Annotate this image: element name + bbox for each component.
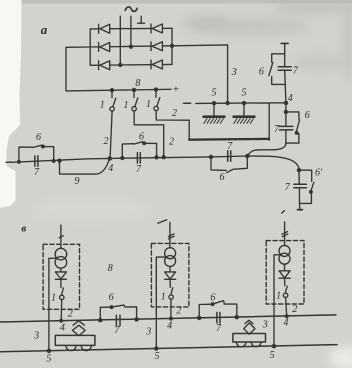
node left group left	[18, 160, 21, 163]
node main fork	[246, 154, 249, 157]
switch 6 group2 loop	[122, 143, 156, 158]
disconnector 1a circle	[110, 107, 114, 111]
trolley1 body	[55, 335, 95, 345]
svg-text:2: 2	[176, 305, 181, 316]
unit1 wire diode-disconnector	[60, 279, 62, 287]
trolley2 diamond	[244, 323, 255, 334]
label minus	[184, 102, 191, 104]
trolley1 pantograph	[73, 321, 84, 325]
node chain1 lower branch	[284, 110, 287, 113]
switch 6 chain2 contact dot	[310, 191, 313, 194]
node phase2-row2	[129, 45, 132, 48]
switch 6 chain1-lower contact dot	[295, 132, 298, 135]
svg-text:в: в	[21, 223, 26, 235]
node tap1 on bus 8	[111, 89, 114, 92]
transformer T1	[55, 248, 67, 268]
switch 6 left loop	[19, 147, 54, 162]
wire bridge minus output 3	[172, 45, 228, 103]
svg-text:2: 2	[169, 136, 174, 147]
unit3 break mark	[282, 232, 288, 237]
wire link to chain1	[247, 143, 286, 156]
node left group right	[52, 160, 55, 163]
diode VD1	[55, 272, 66, 279]
bridge right bus wire	[171, 28, 173, 64]
svg-text:6: 6	[305, 110, 310, 121]
disconnector 1 unit1 blade	[62, 288, 64, 295]
svg-text:2: 2	[68, 309, 73, 320]
unit2 top flick	[158, 220, 167, 224]
svg-text:+: +	[172, 83, 179, 95]
node group2 left	[121, 157, 124, 160]
disconnector 1b circle	[132, 107, 136, 111]
unit3 top tick	[282, 211, 285, 214]
switch 6 group3 blade	[227, 169, 234, 173]
node tap2 on bus 8	[133, 88, 136, 91]
switch 6 groupB blade	[213, 301, 223, 304]
unit3 bypass wire to rail	[274, 255, 281, 346]
ground electrode 5 left hatching	[204, 119, 224, 124]
svg-text:1: 1	[276, 291, 281, 302]
trolley2 wheels	[236, 342, 261, 347]
capacitor 7 group3 plates	[228, 151, 231, 161]
node groupB left	[198, 316, 201, 319]
svg-text:2: 2	[172, 108, 177, 119]
svg-text:1: 1	[161, 292, 166, 303]
unit2 top wire	[169, 222, 171, 248]
svg-text:6': 6'	[315, 168, 323, 179]
node right bus row2	[171, 44, 174, 47]
phase input wire 2	[130, 16, 132, 47]
node ground2	[243, 102, 246, 105]
node unit2 drop on bus	[162, 156, 165, 159]
svg-text:5: 5	[155, 351, 160, 362]
node unit2 contact wire	[170, 317, 173, 320]
svg-text:6: 6	[210, 292, 215, 303]
ground box bottom thick wire	[189, 138, 269, 141]
node groupA right	[135, 318, 138, 321]
main bus wire	[6, 156, 247, 162]
svg-text:9: 9	[75, 176, 80, 187]
transformer T2	[165, 248, 176, 267]
ground electrode 5 right bar	[234, 115, 255, 118]
node unit2 rail	[155, 347, 158, 350]
disconnector 1c lower wire	[156, 111, 189, 140]
switch 6 chain1-top blade	[269, 63, 273, 76]
diode D1 row1 left	[99, 24, 110, 33]
unit3 dashed box	[266, 241, 304, 304]
node unit1 rail	[47, 349, 50, 352]
capacitor 7 group2 plates	[137, 153, 140, 163]
disconnector 1c feed	[155, 90, 157, 98]
node 9-loop left	[58, 159, 61, 162]
chain2 bottom terminal	[298, 209, 303, 211]
disconnector 1a blade	[113, 98, 116, 106]
switch 6 groupA blade	[112, 305, 124, 307]
switch 6 left contact dot	[42, 145, 45, 148]
unit1 top wire	[60, 225, 62, 248]
switch 6 group3 loop below bus	[211, 156, 247, 170]
node group3 left	[210, 155, 213, 158]
disconnector 1c blade	[157, 98, 160, 106]
bridge row 2 wire	[90, 46, 172, 47]
capacitor 7 chain1-top plates	[278, 67, 291, 71]
disconnector 1 unit3 blade	[285, 286, 287, 293]
svg-text:3: 3	[33, 330, 39, 341]
trolley1 diamond	[72, 325, 85, 335]
wire bridge plus output to bus 8	[66, 47, 171, 91]
node groupA left	[99, 319, 102, 322]
unit2 dashed box	[151, 243, 189, 307]
unit3 wire diode-disconnector	[284, 278, 286, 286]
diode D2 row2 left	[99, 43, 110, 52]
disconnector 1a feed	[111, 90, 113, 98]
svg-text:3: 3	[145, 326, 151, 337]
svg-text:4: 4	[283, 317, 288, 328]
node chain2 top	[297, 169, 300, 172]
ground electrode 5 right hatching	[234, 119, 254, 124]
switch 6 chain1-lower blade	[296, 120, 299, 132]
phase input wire 3 with T end	[138, 16, 145, 23]
svg-text:3: 3	[231, 67, 237, 78]
transformer T3	[279, 245, 290, 264]
node unit3 contact wire	[285, 315, 288, 318]
bypass wire 9	[60, 159, 110, 174]
unit2 wire transformer-diode	[169, 267, 171, 272]
svg-text:4: 4	[167, 321, 172, 332]
svg-text:1: 1	[146, 99, 151, 110]
wire link to chain2	[247, 156, 299, 170]
svg-text:6: 6	[259, 66, 264, 77]
disconnector 1 unit3 circle	[283, 293, 287, 297]
unit1 top tick	[59, 236, 63, 238]
unit2 break mark	[168, 234, 174, 239]
switch 6 chain2 branch	[299, 170, 312, 203]
svg-text:6: 6	[36, 132, 41, 143]
switch 6 left blade	[33, 145, 42, 147]
svg-text:1: 1	[100, 100, 105, 111]
disconnector 1c circle	[154, 106, 158, 110]
trolley2 pantograph	[245, 320, 253, 323]
svg-text:8: 8	[108, 263, 113, 274]
bridge left bus wire	[89, 29, 91, 65]
svg-text:6: 6	[109, 292, 114, 303]
phase input wire 1	[119, 16, 121, 65]
svg-text:4: 4	[108, 163, 113, 174]
svg-text:4: 4	[60, 322, 65, 333]
capacitor 7 groupA plates	[116, 315, 120, 325]
svg-text:5: 5	[212, 88, 217, 99]
ground electrode 5 left bar	[204, 115, 225, 118]
unit2 bypass wire to rail	[156, 257, 166, 348]
trolley1 wheels	[66, 346, 92, 351]
capacitor 7 chain1-lower plates	[280, 126, 293, 129]
svg-text:a: a	[41, 22, 48, 37]
diode D3 row3 left	[99, 61, 110, 70]
switch 6 groupB contact dot	[211, 303, 214, 306]
minus bus wire	[196, 103, 286, 140]
switch 6 groupB loop	[199, 301, 237, 318]
unit1 dashed box	[43, 244, 79, 309]
svg-text:3: 3	[262, 319, 268, 330]
node unit1 contact wire	[60, 319, 63, 322]
disconnector 1a lower wire	[110, 111, 112, 158]
unit2 wire to contact wire	[170, 299, 172, 318]
capacitor 7 groupB plates	[217, 312, 220, 323]
node ground1	[213, 102, 216, 105]
unit2 wire diode-disconnector	[169, 279, 171, 287]
bridge row 1 wire	[90, 27, 172, 30]
rail wire	[0, 345, 337, 352]
unit1 bypass wire to rail	[49, 258, 57, 351]
bridge row 3 wire	[90, 63, 172, 66]
unit3 top wire	[284, 222, 286, 245]
node 3-minus junction	[226, 102, 229, 105]
node group2 right	[155, 156, 158, 159]
svg-text:8: 8	[135, 78, 140, 89]
switch 6 group2 contact dot	[143, 142, 146, 145]
switch 6 groupA contact dot	[110, 306, 113, 309]
chain2 main wire	[298, 170, 301, 209]
node phase1-row3	[119, 63, 122, 66]
capacitor 7 left plates	[35, 156, 38, 166]
unit1 wire transformer-diode	[60, 268, 62, 272]
svg-text:4: 4	[288, 93, 293, 104]
diode D5 row2 right	[151, 42, 162, 51]
chain1 top terminal	[281, 42, 288, 44]
switch 6 chain2 blade	[311, 182, 314, 190]
node unit3 rail	[272, 345, 275, 348]
disconnector 1 unit2 circle	[169, 295, 173, 299]
disconnector 1b lower wire	[134, 111, 164, 157]
node groupB right	[235, 316, 238, 319]
chain1 main wire lower	[285, 103, 287, 143]
svg-text:2: 2	[292, 304, 297, 315]
disconnector 1b blade	[135, 98, 138, 106]
switch 6 chain1-top loop	[272, 54, 286, 85]
switch 6 chain1-lower branch	[286, 112, 299, 143]
node 4 chain1	[284, 101, 287, 104]
ground electrode 5 right stem	[243, 103, 245, 115]
svg-text:5: 5	[270, 350, 275, 361]
disconnector 1 unit2 blade	[171, 288, 173, 295]
trolley2 body	[233, 334, 266, 343]
disconnector 1b feed	[133, 90, 135, 98]
svg-text:6: 6	[220, 172, 225, 183]
diode D6 row3 right	[151, 60, 162, 69]
unit3 wire transformer-diode	[284, 264, 286, 271]
svg-text:5: 5	[46, 353, 51, 364]
svg-text:1: 1	[51, 292, 56, 303]
chain1 main wire upper	[285, 43, 286, 103]
diode D4 row1 right	[151, 24, 162, 33]
disconnector 1 unit1 circle	[60, 295, 64, 299]
trolley contact wire	[0, 315, 336, 322]
unit1 wire to contact wire	[60, 300, 63, 321]
svg-text:2: 2	[104, 136, 109, 147]
AC source tilde symbol	[125, 7, 137, 12]
ground electrode 5 left stem	[213, 103, 215, 115]
switch 6 group2 blade	[134, 142, 143, 144]
diode VD3	[279, 271, 290, 278]
node tap3 on bus 8	[155, 88, 158, 91]
switch 6 groupA loop	[100, 305, 136, 320]
unit3 wire to contact wire	[286, 298, 287, 317]
capacitor 7 chain2 plates	[294, 184, 307, 187]
svg-text:1: 1	[124, 100, 129, 111]
svg-text:5: 5	[242, 88, 247, 99]
svg-text:6: 6	[139, 132, 144, 143]
diode VD2	[165, 272, 176, 279]
node 4 on bus	[108, 157, 111, 160]
